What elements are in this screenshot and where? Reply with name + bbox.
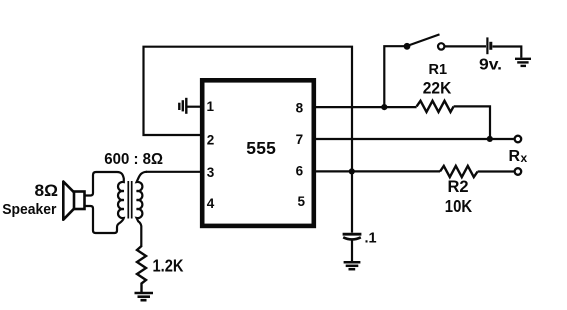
resistor R2 value label 10K (445, 196, 473, 216)
ground below 1.2K resistor (135, 293, 154, 300)
wire R2 to Rx terminal (478, 170, 514, 172)
svg-text:600 : 8Ω: 600 : 8Ω (104, 151, 163, 168)
speaker impedance label 8ohm (35, 181, 59, 200)
wire battery to ground (493, 47, 522, 58)
svg-text:3: 3 (207, 165, 215, 180)
resistor R2 10K zigzag (440, 166, 478, 177)
wire pin 7 to Rx terminal (314, 138, 514, 140)
svg-text:8Ω: 8Ω (35, 181, 59, 200)
terminal Rx upper (open circle) (515, 136, 522, 143)
label Rx (509, 148, 528, 165)
resistor 1.2K (vertical) (137, 246, 146, 292)
IC U1 label 555 (246, 138, 276, 158)
transformer ratio label 600:8ohm (104, 151, 163, 168)
resistor R1 designator label (429, 62, 448, 78)
speaker LS1 (63, 182, 84, 220)
svg-text:7: 7 (296, 132, 304, 147)
svg-text:2: 2 (207, 133, 215, 148)
svg-text:6: 6 (296, 164, 304, 179)
svg-text:1: 1 (207, 99, 215, 114)
svg-text:R: R (509, 148, 521, 165)
switch S1 lever (408, 34, 440, 45)
svg-text:x: x (521, 151, 528, 165)
capacitor C1 .1 top plate (343, 233, 362, 236)
node junction pin6/capacitor (349, 168, 355, 174)
battery label 9v. (479, 56, 502, 73)
wire pin 8 to switch junction and R1 (314, 106, 417, 108)
wire switch to battery (445, 45, 486, 47)
wire R1 down to pin 7 line (454, 106, 490, 139)
node junction pin8/switch (381, 104, 387, 110)
IC U1 555 timer body (202, 80, 314, 226)
svg-text:10K: 10K (445, 196, 473, 216)
svg-text:555: 555 (246, 138, 276, 158)
pin 7 number label (296, 132, 304, 147)
switch S1 throw terminal (438, 43, 444, 49)
pin 5 number label (298, 194, 306, 209)
pin 8 number label (296, 100, 304, 115)
battery B1 9v (487, 37, 490, 54)
terminal Rx lower (open circle) (515, 168, 522, 175)
transformer T1 core (128, 181, 131, 219)
svg-text:Speaker: Speaker (2, 201, 56, 218)
svg-text:4: 4 (207, 196, 215, 211)
pin 6 number label (296, 164, 304, 179)
wire pin 6 to R2 (314, 170, 440, 172)
speaker label (2, 201, 56, 218)
wire capacitor to ground (351, 241, 353, 262)
svg-text:22K: 22K (423, 79, 452, 98)
resistor R2 designator label (448, 178, 469, 196)
capacitor C1 value label .1 (365, 231, 377, 247)
svg-text:R2: R2 (448, 178, 469, 196)
capacitor C1 .1 bottom curved plate (343, 237, 361, 239)
ground at pin 1 (sideways) (179, 98, 202, 114)
resistor 1.2K value label (153, 255, 184, 275)
svg-text:.1: .1 (365, 231, 377, 247)
transformer T1 primary winding with loop wires to speaker (85, 172, 124, 233)
svg-text:R1: R1 (429, 62, 448, 78)
pin 3 number label (207, 165, 215, 180)
ground at battery (515, 59, 531, 66)
switch S1 pole dot (404, 43, 411, 50)
resistor R1 value label 22K (423, 79, 452, 98)
pin 2 number label (207, 133, 215, 148)
svg-text:9v.: 9v. (479, 56, 502, 73)
pin 1 number label (207, 99, 215, 114)
svg-text:1.2K: 1.2K (153, 255, 184, 275)
resistor R1 22K zigzag (417, 101, 454, 112)
svg-text:8: 8 (296, 100, 304, 115)
svg-text:5: 5 (298, 194, 306, 209)
ground below capacitor (344, 262, 361, 269)
pin 4 number label (207, 196, 215, 211)
wire pin 3 to transformer secondary (146, 171, 202, 173)
wire junction up to switch (384, 46, 404, 107)
wire pin2-to-pin6 top loop with vertical drop to capacitor (144, 47, 353, 233)
node junction R1/pin7 (487, 136, 493, 142)
transformer T1 secondary winding (137, 172, 147, 247)
